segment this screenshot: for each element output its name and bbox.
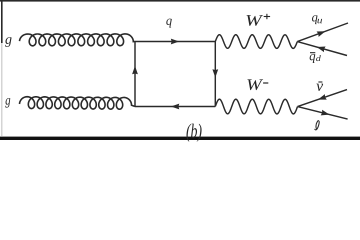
antineutrino nu-bar line (arrow toward vertex): [298, 90, 348, 107]
lepton line (outgoing): [298, 107, 348, 120]
arrow on left edge (flow up): [132, 66, 138, 74]
quark box: top edge: [135, 41, 215, 43]
arrow on lepton line (outgoing): [321, 110, 330, 116]
label qu: [312, 15, 317, 24]
label g (top): [5, 37, 12, 47]
frame top border: [0, 0, 360, 2]
arrow on right edge (flow down): [212, 69, 218, 77]
label W+: [246, 15, 263, 26]
arrow on nu-bar line (pointing back): [318, 94, 327, 99]
label lepton l: [315, 121, 320, 130]
antiquark qd-bar outgoing line (arrow toward vertex): [297, 42, 347, 56]
label q (top quark): [166, 19, 171, 28]
label g (bottom): [5, 98, 10, 108]
arrow on qd-bar line (pointing back): [317, 47, 326, 53]
arrow on top edge (quark flow right): [171, 39, 179, 45]
label nu-bar: [318, 81, 322, 83]
W- boson wavy line: [215, 99, 297, 114]
frame left border (dark upper part): [1, 0, 3, 43]
quark box: bottom edge: [135, 106, 215, 108]
label W-: [247, 79, 263, 90]
frame bottom border: [0, 137, 360, 140]
gluon g1 (top incoming gluon): [20, 34, 136, 46]
quark box: right edge: [214, 42, 216, 107]
W+ boson wavy line: [215, 35, 297, 49]
quark box: left edge: [134, 42, 136, 107]
quark qu outgoing line: [297, 23, 348, 42]
label qd-bar: [310, 52, 315, 54]
gluon g2 (bottom incoming gluon): [20, 97, 136, 109]
label (b) subfigure caption: [186, 124, 191, 142]
arrow on bottom edge (flow left): [171, 104, 179, 110]
frame left border (faint lower part): [0, 43, 3, 136]
arrow on qu line (outgoing): [317, 31, 326, 37]
